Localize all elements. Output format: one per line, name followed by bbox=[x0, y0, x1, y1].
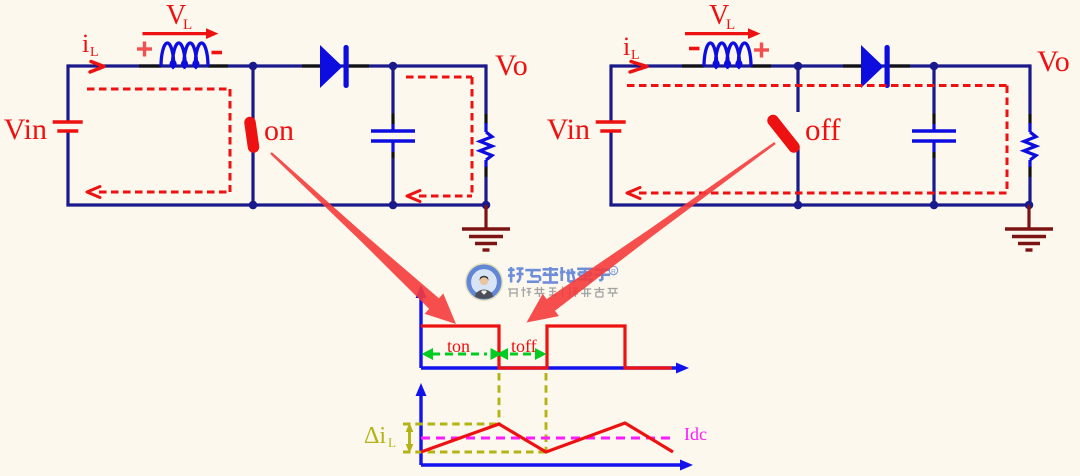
svg-text:R: R bbox=[611, 269, 616, 276]
svg-text:Δi: Δi bbox=[364, 423, 386, 449]
svg-text:Idc: Idc bbox=[684, 424, 707, 444]
svg-text:on: on bbox=[264, 114, 294, 147]
svg-text:L: L bbox=[726, 17, 735, 33]
svg-text:Vin: Vin bbox=[4, 113, 47, 146]
svg-text:Vo: Vo bbox=[495, 49, 528, 82]
svg-text:L: L bbox=[90, 45, 99, 60]
svg-text:Vin: Vin bbox=[547, 113, 590, 146]
svg-text:toff: toff bbox=[511, 336, 537, 356]
svg-text:i: i bbox=[623, 32, 630, 61]
svg-text:L: L bbox=[388, 435, 396, 450]
svg-text:L: L bbox=[183, 17, 192, 33]
svg-text:Vo: Vo bbox=[1037, 45, 1070, 78]
svg-text:i: i bbox=[82, 29, 89, 58]
svg-text:off: off bbox=[805, 112, 841, 147]
svg-text:ton: ton bbox=[447, 336, 470, 356]
